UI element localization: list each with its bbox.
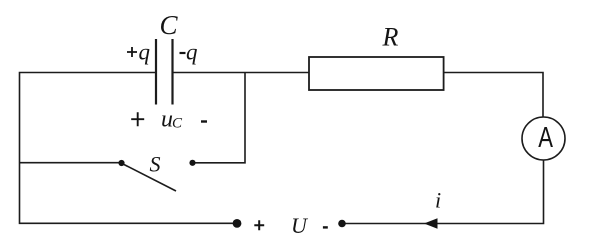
svg-text:C: C — [160, 10, 179, 40]
svg-text:C: C — [172, 116, 183, 132]
svg-text:R: R — [382, 23, 399, 52]
svg-text:U: U — [291, 213, 309, 238]
svg-text:q: q — [186, 40, 198, 65]
svg-text:A: A — [538, 123, 553, 154]
svg-text:i: i — [435, 188, 441, 213]
svg-text:S: S — [150, 152, 161, 177]
svg-text:q: q — [139, 40, 151, 65]
